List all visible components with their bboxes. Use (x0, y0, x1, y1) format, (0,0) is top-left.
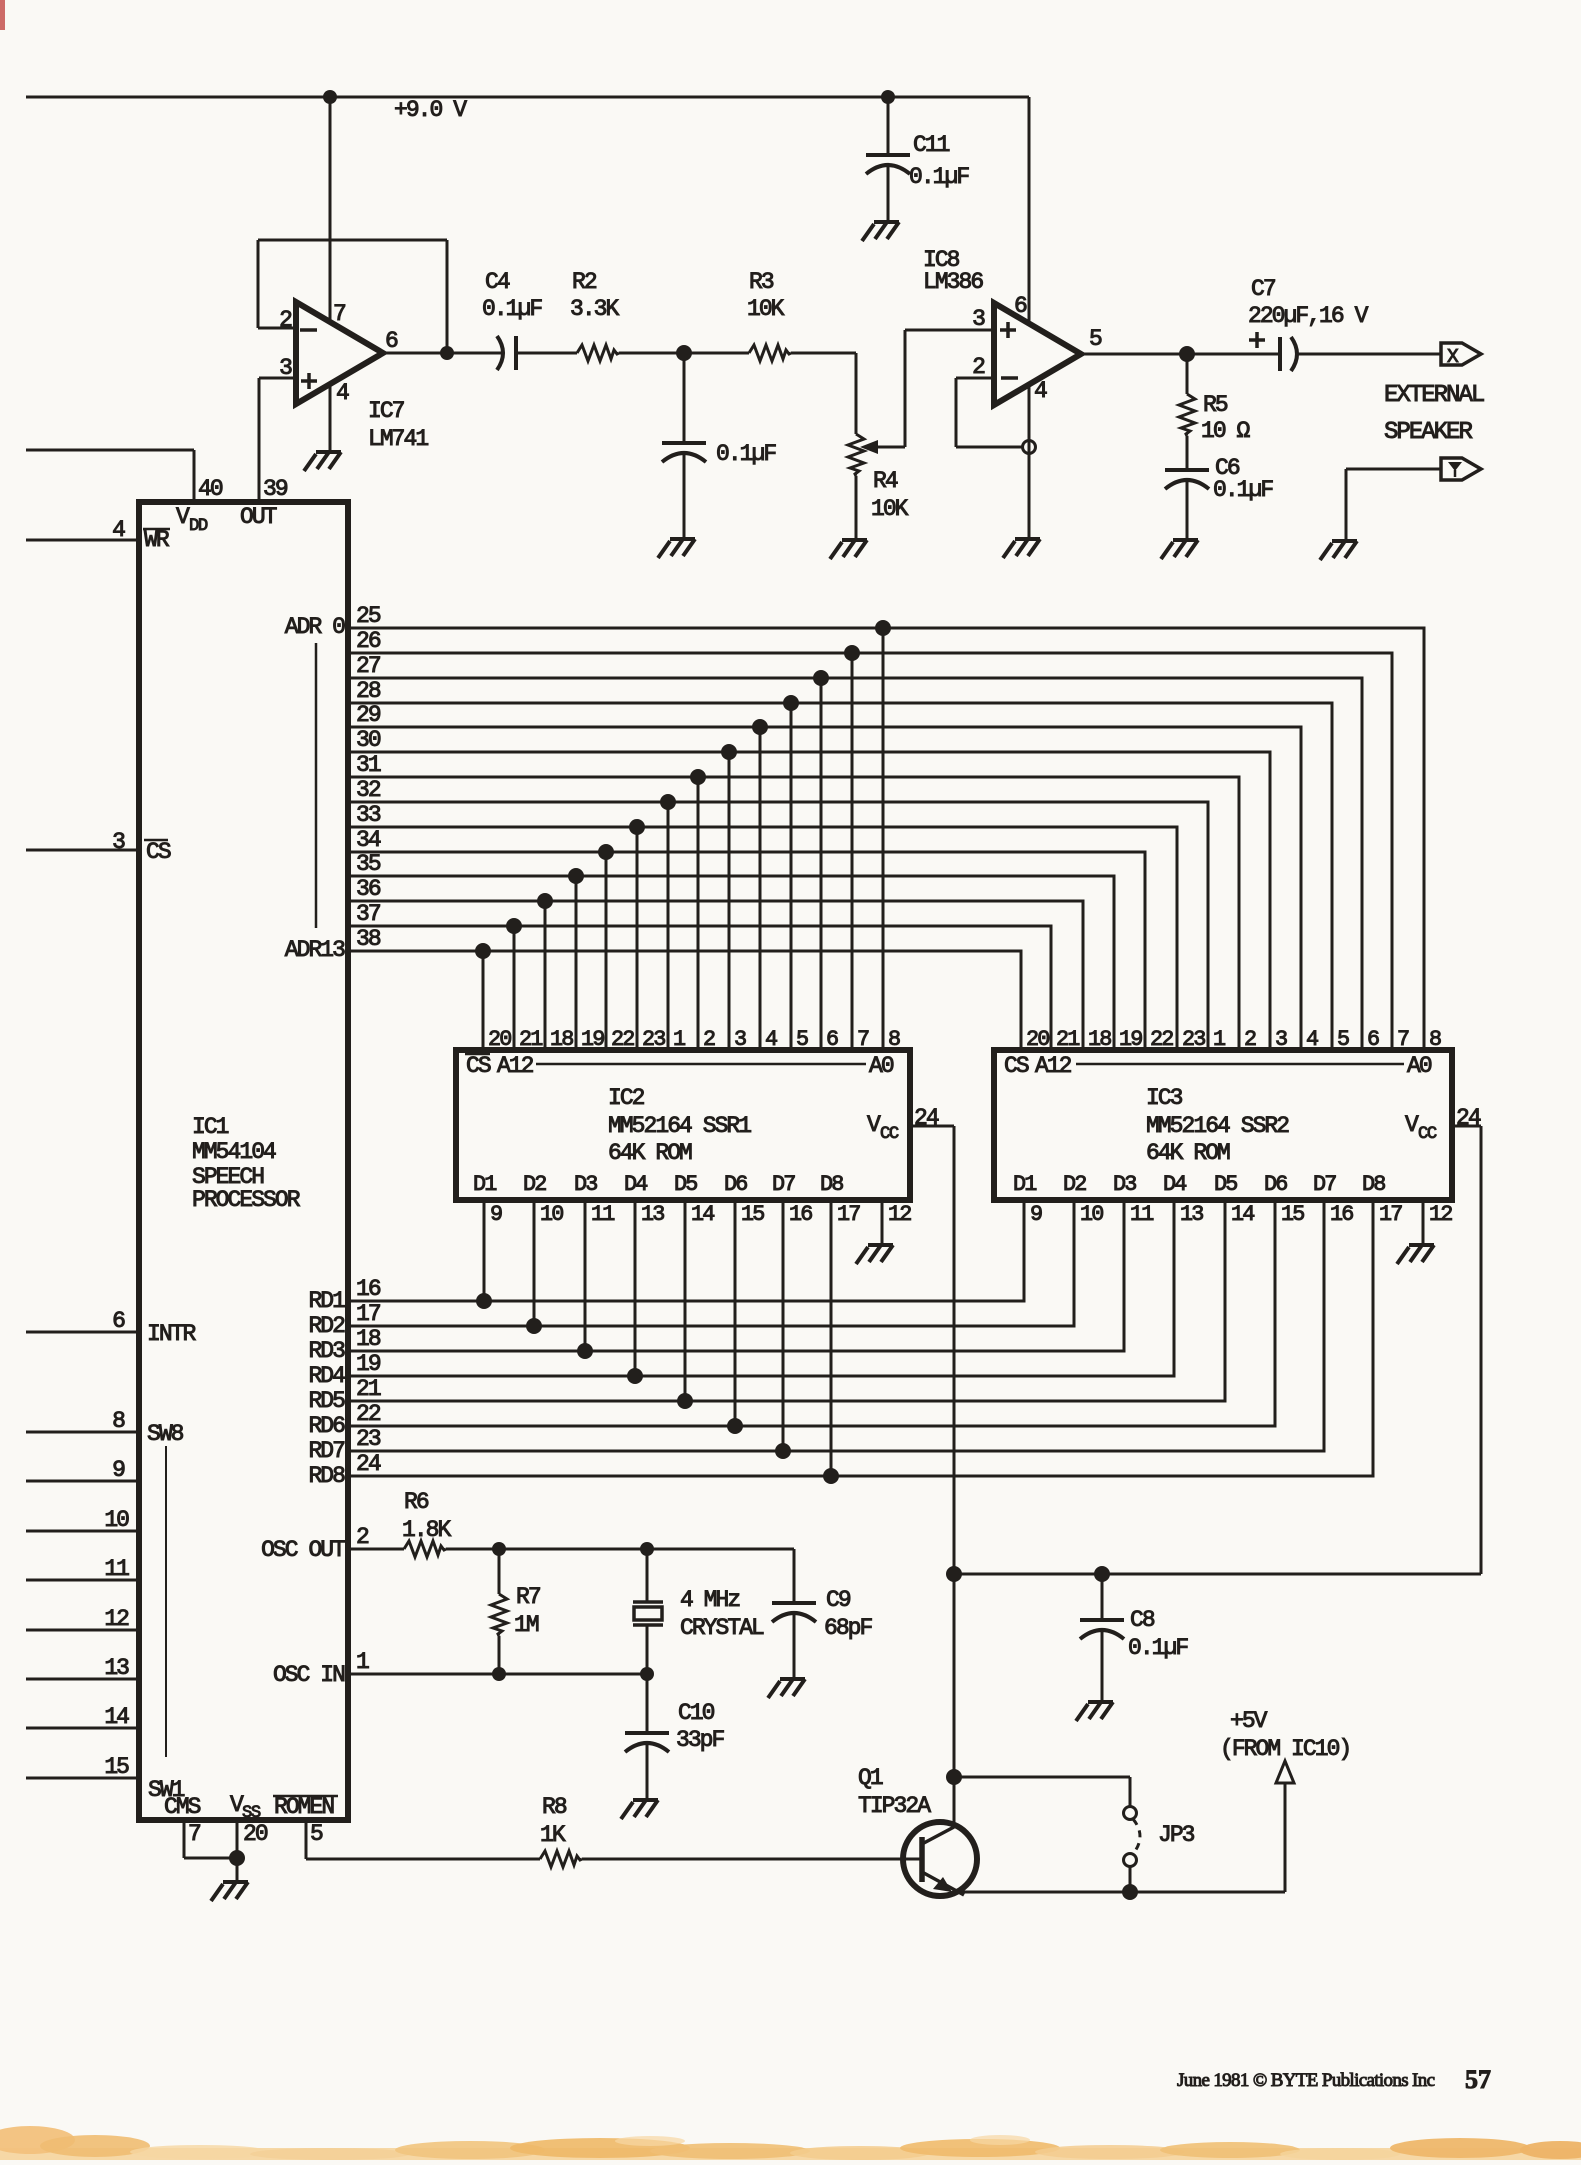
wire IC2 D5 data drop (684, 1200, 687, 1401)
wire ADR bus line pin 25 (348, 628, 1424, 1050)
wire IC2 address drop x729 (728, 752, 731, 1050)
svg-text:35: 35 (356, 851, 381, 877)
pin label IC2 D2 (523, 1172, 546, 1197)
transistor Q1 TIP32A (858, 1765, 977, 1896)
svg-text:RD3: RD3 (308, 1338, 345, 1364)
svg-text:8: 8 (112, 1408, 125, 1434)
junction dot ADR line 34 to IC2 (598, 844, 614, 860)
label external speaker (1384, 382, 1484, 446)
svg-text:8: 8 (888, 1027, 900, 1052)
wire ADR bus line pin 36 (348, 901, 1083, 1050)
pin label 9 (112, 1457, 125, 1483)
pin label IC2 top 18 (550, 1027, 573, 1052)
junction dot Q1 collector (946, 1769, 962, 1785)
op-amp IC8 (923, 247, 1102, 405)
label RD6 (308, 1413, 345, 1439)
svg-text:+9.0 V: +9.0 V (394, 97, 467, 123)
svg-text:5: 5 (1337, 1027, 1349, 1052)
svg-text:0.1µF: 0.1µF (1128, 1635, 1188, 1661)
pin label IC3 top 19 (1119, 1027, 1142, 1052)
svg-text:10: 10 (1080, 1202, 1103, 1227)
pin label IC3 D2 (1063, 1172, 1086, 1197)
pin label IC2 top 3 (734, 1027, 746, 1052)
svg-text:LM741: LM741 (368, 426, 428, 452)
svg-text:1.8K: 1.8K (402, 1517, 452, 1543)
connector Y external speaker (1441, 458, 1481, 480)
svg-text:4: 4 (765, 1027, 777, 1052)
wire C7 to X connector (1297, 353, 1441, 356)
svg-text:0.1µF: 0.1µF (482, 296, 542, 322)
label RD8 (308, 1463, 345, 1489)
wire R8 to Q1 base (582, 1858, 920, 1861)
svg-text:IC2: IC2 (608, 1085, 645, 1111)
svg-text:16: 16 (356, 1276, 381, 1302)
svg-text:18: 18 (550, 1027, 573, 1052)
pin label IC3 D3 (1113, 1172, 1136, 1197)
junction dot ADR line 26 to IC2 (844, 645, 860, 661)
wire IC7 pin2 inverting input (258, 327, 296, 330)
SW range line (165, 1446, 167, 1757)
svg-text:15: 15 (741, 1202, 764, 1227)
ground 0.1uF node cap (658, 539, 695, 558)
junction dot VCC C8 (1094, 1566, 1110, 1582)
ADR range line (315, 643, 318, 928)
wire IC3 D3 data drop (348, 1200, 1124, 1351)
pin label 11 (104, 1556, 129, 1582)
wire IC2 pin24 VCC (910, 1126, 954, 1826)
svg-text:36: 36 (356, 876, 381, 902)
svg-text:R6: R6 (404, 1489, 429, 1515)
label ADR 0 (285, 614, 345, 640)
wire IC1 pin15 SW1 stub (26, 1777, 139, 1780)
svg-text:Q1: Q1 (858, 1765, 883, 1791)
label RD7 (308, 1438, 344, 1464)
junction dot VSS (229, 1850, 245, 1866)
svg-text:21: 21 (1056, 1027, 1080, 1052)
label RD1 (308, 1288, 345, 1314)
svg-text:6: 6 (1014, 293, 1027, 319)
svg-text:9: 9 (490, 1202, 502, 1227)
pin label 10 (104, 1507, 129, 1533)
pin label 27 (356, 653, 380, 679)
svg-text:0.1µF: 0.1µF (716, 441, 776, 467)
svg-text:CC: CC (1418, 1125, 1437, 1144)
wire IC3 D2 data drop (348, 1200, 1074, 1326)
wire ADR bus line pin 28 (348, 703, 1332, 1050)
resistor R2 (570, 269, 620, 361)
wire IC3 D8 data drop (348, 1200, 1373, 1476)
pin label IC3 bottom 16 (1330, 1202, 1353, 1227)
svg-text:D2: D2 (523, 1172, 546, 1197)
pin label IC2 top 5 (796, 1027, 808, 1052)
svg-text:21: 21 (356, 1376, 381, 1402)
wire VCC line (954, 1573, 1481, 1576)
svg-text:32: 32 (356, 777, 381, 803)
pin label IC3 top 20 (1026, 1027, 1049, 1052)
wire R2 to junction (619, 352, 684, 355)
junction dot IC7 output feedback (440, 346, 454, 360)
pin label IC3 D8 (1362, 1172, 1385, 1197)
pin label 15 SW1 (104, 1754, 184, 1803)
junction dot ADR line 32 to IC2 (660, 794, 676, 810)
wire IC1 pin40 VDD (26, 450, 194, 502)
ground VSS (211, 1882, 248, 1901)
pin label 19 (356, 1351, 381, 1377)
ground C11 (862, 222, 899, 241)
wire IC8 feedback down (955, 378, 958, 447)
pin label IC3 top 5 (1337, 1027, 1349, 1052)
svg-text:C11: C11 (913, 132, 950, 158)
ground IC8 pin4 (1003, 539, 1040, 558)
svg-text:20: 20 (488, 1027, 511, 1052)
svg-text:D3: D3 (1113, 1172, 1136, 1197)
svg-text:17: 17 (837, 1202, 860, 1227)
label IC2 CS A12 A0 (465, 1053, 894, 1079)
svg-text:3: 3 (734, 1027, 746, 1052)
pin label IC2 top 1 (673, 1027, 686, 1052)
svg-text:1M: 1M (514, 1612, 539, 1638)
pin label IC2 bottom 16 (789, 1202, 812, 1227)
junction dot ADR line 25 to IC2 (875, 620, 891, 636)
svg-text:12: 12 (1429, 1202, 1452, 1227)
wire IC2 address drop x576 (575, 876, 578, 1050)
junction dot IC8 output R5 (1179, 346, 1195, 362)
svg-text:6: 6 (112, 1308, 125, 1334)
wire Q1 emitter (956, 1891, 1285, 1894)
svg-text:19: 19 (1119, 1027, 1142, 1052)
wire ADR bus line pin 38 (348, 951, 1021, 1050)
svg-text:R3: R3 (749, 269, 774, 295)
pin label IC3 top 3 (1275, 1027, 1287, 1052)
wire IC1 pin6 INTR stub (26, 1331, 139, 1334)
svg-text:4: 4 (1306, 1027, 1318, 1052)
svg-text:23: 23 (1182, 1027, 1205, 1052)
svg-text:RD2: RD2 (308, 1313, 345, 1339)
wire IC8 output (1081, 353, 1280, 356)
svg-text:CMS: CMS (164, 1794, 201, 1820)
IC U3 MM52164 SSR2 body (994, 1050, 1452, 1200)
junction dot R2 R3 node (676, 345, 692, 361)
svg-text:29: 29 (356, 702, 381, 728)
svg-text:June 1981 © BYTE Publications: June 1981 © BYTE Publications Inc (1177, 2070, 1435, 2091)
svg-text:TIP32A: TIP32A (858, 1793, 931, 1819)
pin label IC2 top 4 (765, 1027, 777, 1052)
svg-text:15: 15 (104, 1754, 129, 1780)
svg-text:(FROM IC10): (FROM IC10) (1220, 1736, 1350, 1762)
ground C10 (621, 1800, 658, 1819)
svg-text:3: 3 (1275, 1027, 1287, 1052)
svg-text:14: 14 (1231, 1202, 1254, 1227)
pin label 25 (356, 603, 381, 629)
svg-text:ADR 0: ADR 0 (285, 614, 345, 640)
pin label IC3 bottom 13 (1180, 1202, 1203, 1227)
ground C9 (768, 1679, 805, 1698)
wire IC2 address drop x514 (513, 926, 516, 1050)
capacitor C6 (1165, 455, 1273, 540)
pin label IC2 D5 (674, 1172, 697, 1197)
svg-text:C8: C8 (1130, 1607, 1155, 1633)
wire IC1 pin39 OUT to IC7 pin3 (258, 378, 261, 504)
pin label 21 (356, 1376, 381, 1402)
svg-text:14: 14 (104, 1704, 129, 1730)
junction dot ADR line 31 to IC2 (690, 769, 706, 785)
svg-text:4: 4 (1034, 378, 1047, 404)
pin label IC2 bottom 17 (837, 1202, 860, 1227)
svg-text:0.1µF: 0.1µF (1213, 477, 1273, 503)
pin label IC3 top 18 (1088, 1027, 1111, 1052)
svg-text:CS: CS (1004, 1053, 1029, 1079)
svg-text:17: 17 (356, 1301, 380, 1327)
svg-text:A0: A0 (1407, 1053, 1432, 1079)
svg-text:RD6: RD6 (308, 1413, 345, 1439)
wire IC1 pin12 stub (26, 1629, 139, 1632)
svg-text:RD4: RD4 (308, 1363, 345, 1389)
junction dot R7 top (492, 1542, 506, 1556)
svg-text:3: 3 (972, 306, 985, 332)
svg-text:D8: D8 (820, 1172, 843, 1197)
pin label IC2 top 22 (611, 1027, 634, 1052)
label ADR13 (285, 937, 345, 963)
svg-text:CS: CS (466, 1053, 491, 1079)
svg-text:31: 31 (356, 752, 381, 778)
svg-text:23: 23 (356, 1426, 381, 1452)
svg-text:2: 2 (1244, 1027, 1256, 1052)
wire IC2 address drop x637 (636, 827, 639, 1050)
resistor R6 (402, 1489, 452, 1557)
junction dot RD6 IC2 (727, 1418, 743, 1434)
svg-text:40: 40 (198, 476, 223, 502)
svg-text:57: 57 (1465, 2065, 1491, 2094)
capacitor C11 (866, 97, 969, 222)
pin label IC2 D7 (772, 1172, 795, 1197)
svg-text:10K: 10K (747, 296, 785, 322)
svg-text:2: 2 (703, 1027, 715, 1052)
wire IC7 feedback left vertical (257, 240, 260, 328)
wire IC2 D2 data drop (533, 1200, 536, 1326)
svg-text:25: 25 (356, 603, 381, 629)
wire ROMEN pin5 to R8 (306, 1820, 540, 1859)
svg-text:C10: C10 (678, 1700, 715, 1726)
svg-text:EXTERNAL: EXTERNAL (1384, 382, 1484, 409)
svg-text:RD5: RD5 (308, 1388, 345, 1414)
wire IC8 pin2 (956, 377, 994, 380)
pin label 30 (356, 727, 381, 753)
label RD3 (308, 1338, 345, 1364)
svg-text:INTR: INTR (147, 1321, 197, 1347)
svg-text:2: 2 (356, 1524, 369, 1550)
svg-text:34: 34 (356, 827, 381, 853)
junction dot R7 bottom (492, 1667, 506, 1681)
junction dot RD5 IC2 (677, 1393, 693, 1409)
svg-text:6: 6 (1367, 1027, 1379, 1052)
pin label 3 CS (112, 829, 171, 865)
capacitor C8 (1080, 1574, 1188, 1702)
wire IC1 pin10 stub (26, 1530, 139, 1533)
junction dot ADR line 27 to IC2 (813, 670, 829, 686)
svg-text:D6: D6 (1264, 1172, 1287, 1197)
wire IC3 D4 data drop (348, 1200, 1174, 1376)
pin label 12 (104, 1606, 129, 1632)
wire IC3 D7 data drop (348, 1200, 1324, 1451)
pin label IC2 top 23 (642, 1027, 665, 1052)
svg-text:D4: D4 (1163, 1172, 1186, 1197)
svg-text:R8: R8 (542, 1794, 567, 1820)
svg-text:16: 16 (1330, 1202, 1353, 1227)
pin label IC3 bottom 14 (1231, 1202, 1254, 1227)
svg-text:R4: R4 (873, 468, 898, 494)
pin label 6 INTR (112, 1308, 196, 1347)
svg-text:MM54104: MM54104 (192, 1139, 276, 1165)
pin label IC2 D1 (473, 1172, 497, 1197)
wire ADR bus line pin 31 (348, 777, 1239, 1050)
wire ADR bus line pin 34 (348, 852, 1145, 1050)
svg-text:11: 11 (104, 1556, 129, 1582)
wire IC1 pin4 WR stub (26, 539, 139, 542)
wire IC7 feedback right vertical (446, 240, 449, 353)
junction dot crystal top (640, 1542, 654, 1556)
pin label IC3 bottom 15 (1281, 1202, 1304, 1227)
svg-text:D5: D5 (1214, 1172, 1237, 1197)
pin label 23 (356, 1426, 381, 1452)
wire IC3 pin24 VCC (1452, 1126, 1481, 1574)
svg-text:22: 22 (356, 1401, 381, 1427)
svg-text:26: 26 (356, 628, 381, 654)
label IC2 name (608, 1085, 751, 1166)
svg-text:6: 6 (385, 328, 398, 354)
pin label IC3 top 2 (1244, 1027, 1256, 1052)
svg-text:9: 9 (112, 1457, 125, 1483)
junction dot RD7 IC2 (775, 1443, 791, 1459)
svg-text:9: 9 (1030, 1202, 1042, 1227)
junction dot ADR line 35 to IC2 (568, 868, 584, 884)
pin label 18 (356, 1326, 381, 1352)
node circle IC8 feedback (1023, 441, 1036, 454)
svg-text:D1: D1 (473, 1172, 497, 1197)
wire IC2 address drop x760 (759, 727, 762, 1050)
svg-text:IC7: IC7 (368, 398, 404, 424)
pin label IC2 top 8 (888, 1027, 900, 1052)
svg-text:220µF,16 V: 220µF,16 V (1248, 303, 1369, 329)
label IC1 name (192, 1114, 301, 1213)
pin label IC3 top 6 (1367, 1027, 1379, 1052)
pin label 40 VDD (176, 476, 223, 536)
pin label IC3 bottom 10 (1080, 1202, 1103, 1227)
svg-text:7: 7 (1397, 1027, 1409, 1052)
svg-text:1: 1 (356, 1649, 369, 1675)
pin label IC2 top 19 (581, 1027, 604, 1052)
wire IC2 address drop x698 (697, 777, 700, 1050)
svg-text:3.3K: 3.3K (570, 296, 620, 322)
pin label IC3 top 22 (1150, 1027, 1173, 1052)
capacitor C4 (482, 269, 542, 370)
svg-text:D8: D8 (1362, 1172, 1385, 1197)
svg-text:4 MHz: 4 MHz (680, 1587, 739, 1613)
junction dot RD1 IC2 (476, 1293, 492, 1309)
wire C4 to R2 (516, 352, 577, 355)
wire CMS pin7 (184, 1820, 237, 1858)
svg-text:64K ROM: 64K ROM (1146, 1140, 1230, 1166)
wire IC8 feedback to pin4 line (956, 446, 1023, 449)
scan artifact bottom band (0, 2126, 1581, 2160)
svg-text:CS: CS (146, 839, 171, 865)
svg-text:SW8: SW8 (147, 1421, 184, 1447)
svg-text:33: 33 (356, 802, 381, 828)
svg-text:22: 22 (1150, 1027, 1173, 1052)
wire IC2 address drop x545 (544, 901, 547, 1050)
pin label 33 (356, 802, 381, 828)
svg-text:10: 10 (104, 1507, 129, 1533)
svg-text:15: 15 (1281, 1202, 1304, 1227)
junction dot crystal bottom (640, 1667, 654, 1681)
svg-text:MM52164 SSR2: MM52164 SSR2 (1146, 1113, 1289, 1139)
junction dot RD2 IC2 (526, 1318, 542, 1334)
pin label IC2 bottom 11 (591, 1202, 615, 1227)
label IC3 CS A12 A0 (1004, 1053, 1432, 1079)
wire R4 wiper to IC8 pin3 (905, 330, 994, 447)
svg-text:7: 7 (188, 1821, 200, 1847)
svg-text:7: 7 (857, 1027, 869, 1052)
pin label 35 (356, 851, 381, 877)
junction dot RD3 IC2 (577, 1343, 593, 1359)
pin label IC3 D5 (1214, 1172, 1237, 1197)
pin label IC3 bottom 9 (1030, 1202, 1042, 1227)
svg-text:14: 14 (691, 1202, 714, 1227)
wire IC7 pin3 noninverting input (259, 377, 296, 380)
pin label IC3 bottom 17 (1379, 1202, 1402, 1227)
svg-text:1: 1 (673, 1027, 686, 1052)
wire IC2 address drop x821 (820, 678, 823, 1050)
wire junction to R3 (684, 352, 749, 355)
svg-text:SPEAKER: SPEAKER (1384, 419, 1472, 446)
svg-text:RD8: RD8 (308, 1463, 345, 1489)
pin label 16 (356, 1276, 381, 1302)
pin label IC3 top 21 (1056, 1027, 1080, 1052)
pin label IC2 D4 (624, 1172, 647, 1197)
pin label 26 (356, 628, 381, 654)
svg-text:C7: C7 (1251, 276, 1275, 302)
svg-text:CRYSTAL: CRYSTAL (680, 1615, 764, 1641)
resistor R7 (491, 1549, 540, 1674)
wire IC2 D1 data drop (483, 1200, 486, 1301)
pin label IC2 top 20 (488, 1027, 511, 1052)
svg-text:MM52164 SSR1: MM52164 SSR1 (608, 1113, 751, 1139)
footer text (1177, 2065, 1491, 2094)
svg-text:68pF: 68pF (824, 1615, 873, 1641)
wire IC3 pin12 ground (1423, 1200, 1452, 1245)
wire IC1 pin8 SW8 stub (26, 1431, 139, 1434)
pin label 31 (356, 752, 381, 778)
pin label 7 20 5 (188, 1821, 323, 1847)
svg-text:A0: A0 (869, 1053, 894, 1079)
potentiometer R4 (848, 434, 909, 540)
pin label 32 (356, 777, 381, 803)
wire ADR bus line pin 27 (348, 678, 1362, 1050)
ground IC7 pin4 (304, 452, 341, 471)
svg-text:OSC IN: OSC IN (273, 1662, 344, 1688)
label RD2 (308, 1313, 345, 1339)
wire IC1 pin13 stub (26, 1678, 139, 1681)
junction dot +9V to IC7 (323, 90, 337, 104)
junction dot JP3 emitter line (1122, 1884, 1138, 1900)
capacitor 0.1uF at R2/R3 node (662, 353, 776, 539)
ground IC3 pin12 (1397, 1245, 1434, 1264)
svg-text:D7: D7 (1313, 1172, 1336, 1197)
svg-text:18: 18 (356, 1326, 381, 1352)
svg-text:5: 5 (310, 1821, 323, 1847)
svg-text:19: 19 (356, 1351, 381, 1377)
pin label IC2 bottom 10 (540, 1202, 563, 1227)
wire IC2 address drop x483 (482, 951, 485, 1050)
